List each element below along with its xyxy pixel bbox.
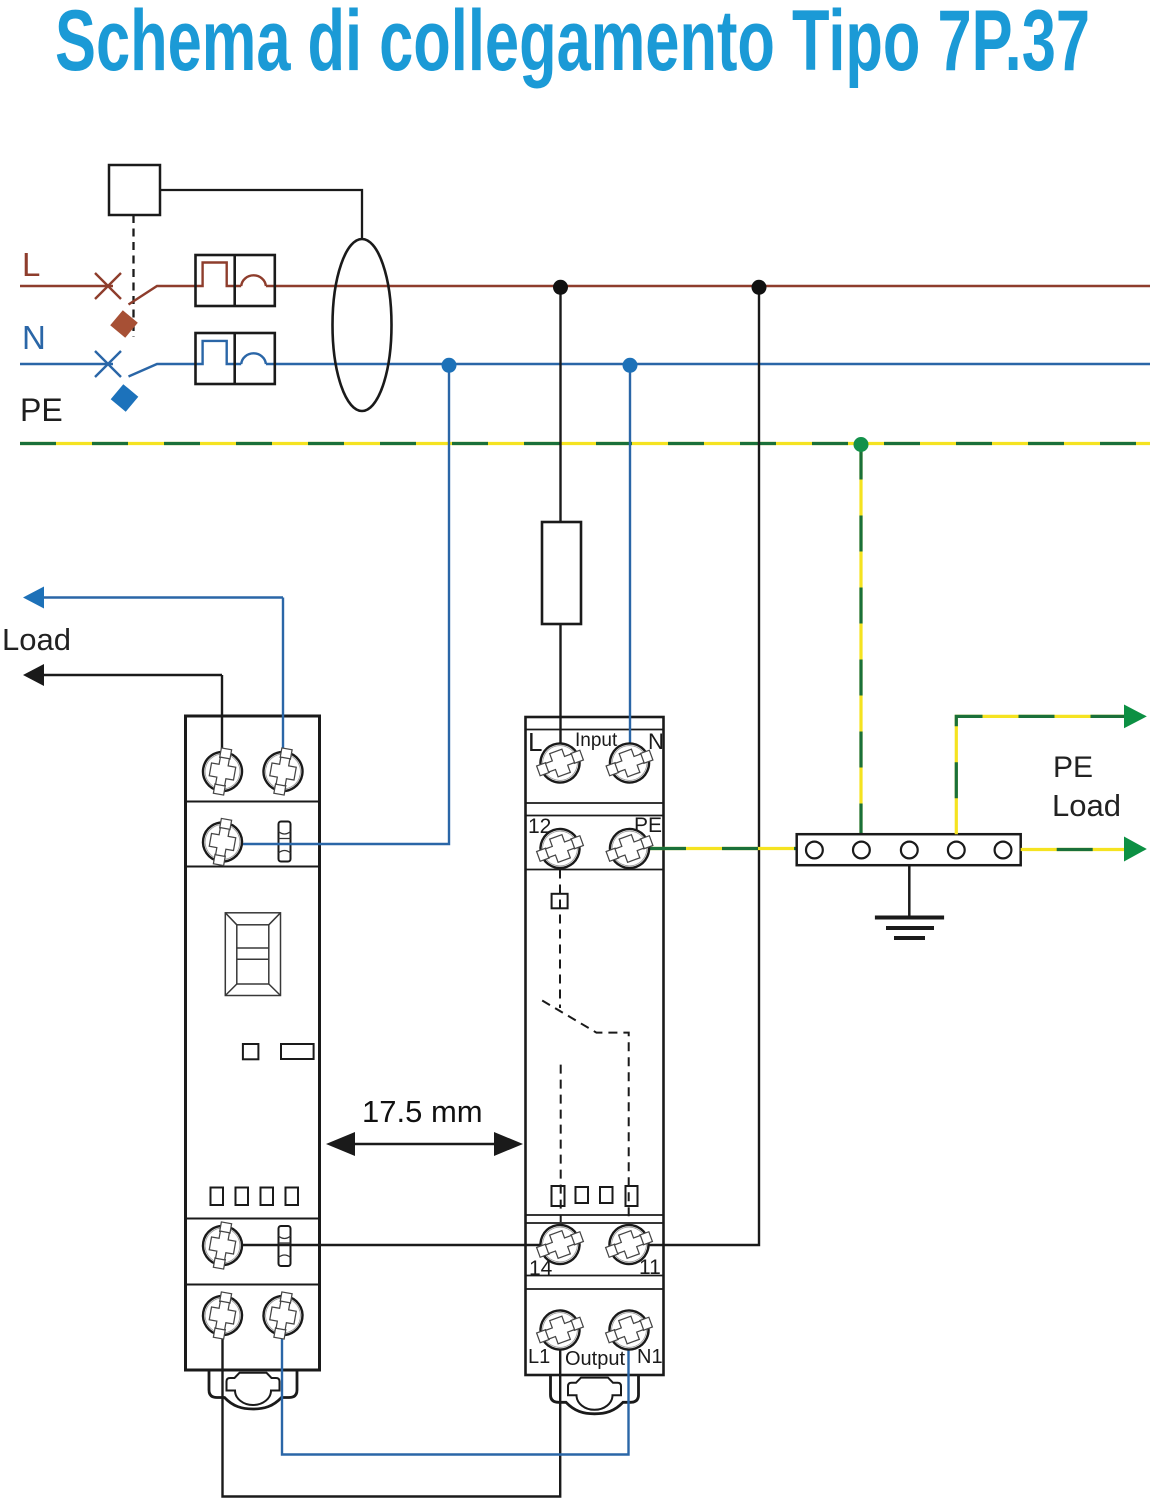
svg-text:N: N [22, 319, 46, 356]
svg-text:17.5 mm: 17.5 mm [362, 1094, 483, 1129]
svg-text:PE: PE [1053, 751, 1093, 784]
svg-text:L: L [22, 246, 40, 283]
svg-text:N1: N1 [637, 1346, 663, 1368]
svg-text:Load: Load [2, 622, 71, 657]
svg-text:L: L [528, 727, 542, 757]
svg-text:Output: Output [565, 1348, 625, 1370]
svg-text:Input: Input [575, 730, 618, 751]
svg-text:Load: Load [1052, 788, 1121, 823]
svg-text:Schema di collegamento Tipo 7P: Schema di collegamento Tipo 7P.37 [55, 0, 1090, 89]
svg-text:N: N [648, 729, 664, 754]
svg-text:L1: L1 [528, 1346, 550, 1368]
svg-text:PE: PE [20, 392, 63, 428]
